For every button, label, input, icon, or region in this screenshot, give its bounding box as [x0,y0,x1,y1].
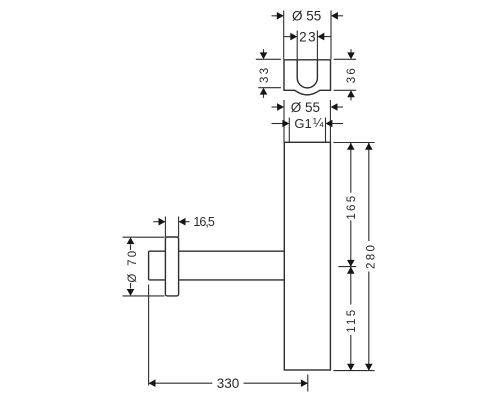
dim 16,5: left arrow tail [153,221,159,223]
dim 330: left dim line segment [149,382,213,384]
dim 16,5: left arrowhead [159,218,166,226]
dim Ø55 top: left arrow tail [272,15,278,17]
dim 330: left extension line [148,285,150,386]
dim 36: top arrowhead [347,52,355,59]
dim 23: left extension line [296,31,298,60]
dim 33: bottom arrow tail [263,94,265,98]
dim 16,5: right arrow tail [185,221,190,223]
wall flange [165,237,178,296]
dim 115: bottom arrowhead [347,364,355,371]
dim 36: bottom arrowhead [347,90,355,97]
svg-text:115: 115 [346,308,358,333]
dim 165: dim line lower segment [350,220,352,266]
dim 23: left dim line segment [284,36,291,38]
dim Ø70: top arrowhead [127,237,135,244]
dim Ø70: bottom extension line [123,295,165,297]
dim 330: right arrowhead [301,379,308,387]
dim 115: dim line upper segment [350,267,352,305]
right dims: top extension line [333,142,374,144]
dim 280: top arrowhead [365,143,373,150]
dim G1¼: right arrow tail [332,123,343,125]
dim Ø55 top: left arrowhead [277,12,284,20]
horizontal tube: left end cap [148,251,150,280]
dim 330: left arrowhead [149,379,156,387]
dim 280: dim line upper segment [368,143,370,241]
dim Ø55 mid: right extension line (neck) [329,100,331,142]
dim G1¼: left extension line [288,118,290,143]
dim G1¼: left arrow tail [272,123,284,125]
main vertical tube body [284,142,330,370]
wall bracket U cutout [297,60,317,88]
horizontal tube: bottom edge [149,279,285,281]
dim Ø55 mid: left arrowhead [277,103,284,111]
dim 23: left arrowhead [290,33,297,41]
svg-text:280: 280 [365,243,377,269]
dim Ø55 top: left extension line [283,11,285,60]
dim Ø55 top: right arrow tail [337,15,343,17]
dim Ø70: bottom arrowhead [127,289,135,296]
dim 36: top arrow tail [350,49,352,53]
right dims: bottom extension line [333,370,374,372]
dim G1¼: left arrowhead [282,120,289,128]
dim Ø70: top extension line [123,236,165,238]
dim Ø70: bottom arrow tail [130,283,132,289]
svg-text:¼: ¼ [313,116,324,130]
svg-text:16,5: 16,5 [193,215,215,229]
dim 36: top extension line [334,58,357,60]
dim 165: bottom arrowhead [347,260,355,267]
dim 280: bottom arrowhead [365,364,373,371]
dim 16,5: right extension line [178,217,180,238]
dim 23: right arrowhead [317,33,324,41]
svg-text:36: 36 [346,66,358,83]
dim 33: top arrow tail [263,49,265,53]
dim 23: right extension line [316,31,318,60]
svg-text:23: 23 [299,29,317,44]
dim 115: top arrowhead [347,267,355,274]
wall bracket (cup) outline with bottom bulge [284,60,331,95]
svg-text:G1: G1 [294,116,311,131]
dim Ø55 mid: left extension line (neck) [283,100,285,142]
dim 165: top arrowhead [347,143,355,150]
svg-text:165: 165 [346,194,358,220]
dim Ø55 top: right extension line [330,11,332,60]
right dims: middle extension tick at tube axis [338,266,356,268]
svg-text:330: 330 [217,376,240,391]
dim Ø55 mid: left arrow tail [272,106,278,108]
dim 330: right extension line [307,375,309,392]
dim 165: dim line upper segment [350,143,352,193]
dim G1¼: right extension line [325,118,327,143]
dim 16,5: left extension line [164,217,166,238]
dim 330: right dim line segment [244,382,308,384]
dim 36: bottom arrow tail [350,97,352,101]
dim 33: bottom arrowhead [260,88,268,95]
dim 33: top arrowhead [260,52,268,59]
dim 33: bottom extension line [258,87,281,89]
dim G1¼: right arrowhead [326,120,333,128]
dim 36: bottom extension line [334,89,357,91]
dim 16,5: right arrowhead [179,218,186,226]
dim Ø55 mid: right arrow tail [337,106,343,108]
dim 280: dim line lower segment [368,272,370,371]
svg-text:Ø 70: Ø 70 [127,249,139,283]
dim Ø70: top arrow tail [130,245,132,251]
svg-text:Ø 55: Ø 55 [291,100,320,115]
dim Ø55 mid: right arrowhead [331,103,338,111]
dim 115: dim line lower segment [350,335,352,371]
svg-text:Ø 55: Ø 55 [292,9,321,24]
dim 23: right dim line segment [324,36,331,38]
dim 33: top extension line [256,58,281,60]
svg-text:33: 33 [259,66,271,83]
horizontal tube: top edge [149,250,285,252]
dim Ø55 top: right arrowhead [331,12,338,20]
